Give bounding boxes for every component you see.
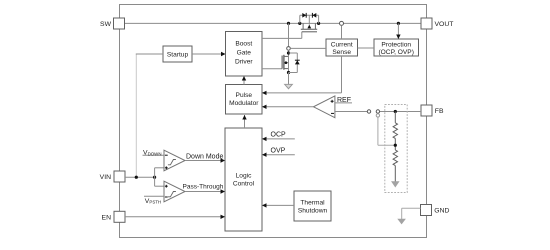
svg-text:PSTH: PSTH [149,200,161,205]
diode D2 [312,13,316,18]
wire VOUT rail to Protection [396,22,400,39]
svg-text:OVP: OVP [271,148,286,155]
svg-text:Sense: Sense [332,49,351,56]
resistor R2 [393,150,397,166]
label Down Mode [186,154,223,161]
label OCP [262,132,295,141]
wire EN to Logic Control [125,215,225,219]
comparator U3 Pass-Through [164,181,185,202]
pin VIN [100,171,125,182]
svg-text:Current: Current [331,41,353,48]
wire REF input [335,97,352,104]
wire Current Sense to Pulse Modulator [262,56,342,95]
wire Logic Control to Pulse Modulator [242,115,246,128]
svg-text:Gate: Gate [237,49,252,56]
wire FB to error amp [335,110,421,113]
wire Down Mode output [185,158,225,162]
svg-text:Boost: Boost [235,40,252,47]
pin VOUT [421,18,453,29]
transistor Q1 PMOS rectifier [298,22,320,32]
wire Startup to Boost Gate Driver [192,52,226,56]
op-amp U1 error amplifier [314,96,335,118]
svg-text:Modulator: Modulator [229,100,259,107]
comparator U2 Down Mode [164,150,185,171]
wire Q2 drain to SW rail [287,22,290,47]
block Protection (OCP, OVP) [374,39,419,56]
wire GND pin to ground [402,208,421,219]
block Thermal Shutdown [294,191,331,221]
block Boost Gate Driver [226,32,263,77]
block Current Sense [326,39,358,56]
svg-text:(OCP, OVP): (OCP, OVP) [378,49,413,56]
wire Thermal Shutdown to Logic Control [262,203,294,207]
svg-text:Thermal: Thermal [300,200,325,207]
label VPSTH with reference stub [144,196,164,205]
svg-text:Pulse: Pulse [236,92,253,99]
node divider tap [394,138,397,150]
svg-text:Control: Control [233,181,255,188]
ground Q2 source [285,84,293,88]
svg-text:VIN: VIN [100,174,111,181]
wire divider bottom [394,166,396,182]
label VDOWN with reference stub [143,150,165,157]
svg-text:Driver: Driver [235,58,253,65]
wire Boost Gate Driver to Q2 gate [262,68,282,70]
wire error amp output to Pulse Modulator [262,105,314,109]
external divider dashed box [385,105,407,193]
wire Pass-Through output [185,189,225,193]
node rail current sense [340,21,344,25]
svg-text:FB: FB [435,108,444,115]
resistor R1 [393,123,397,139]
wire Q2 source to ground [288,73,290,85]
svg-text:Logic: Logic [236,173,252,180]
pin GND [421,205,450,216]
IC boundary [120,5,427,238]
ground divider [392,182,399,187]
diode D1 [302,13,306,18]
svg-text:Protection: Protection [381,41,411,48]
wire rail sense to Current Sense [341,25,343,39]
wire Current Sense to Protection [358,47,375,49]
svg-text:REF: REF [337,97,351,104]
label Pass-Through [183,184,224,191]
svg-text:VOUT: VOUT [435,21,454,28]
node SW current sense tap [287,47,291,51]
pin FB [421,105,444,116]
wire top rail SW to VOUT [125,22,422,24]
wire Pulse Modulator to Boost Gate Driver [242,76,246,85]
wire Q1 body diode rail [300,15,319,24]
ground GND pin [398,219,405,223]
pin SW [100,18,124,29]
block Pulse Modulator [226,85,263,115]
svg-text:OCP: OCP [271,132,287,139]
pin EN [102,211,125,222]
wire VIN to comparator inputs [155,168,164,186]
block Logic Control [225,128,262,231]
svg-text:EN: EN [102,215,112,222]
wire VIN node [125,176,156,179]
transistor Q2 NMOS boost switch [282,50,290,74]
wire VIN to Startup [136,54,163,177]
diode D3 Q2 body diode [289,53,300,73]
label OVP [262,148,295,157]
wire Boost Gate Driver to Q1 gate [262,32,302,39]
wire sense tap to Current Sense [290,47,326,49]
svg-text:Down Mode: Down Mode [186,154,223,161]
svg-text:DOWN: DOWN [148,151,162,156]
svg-text:Shutdown: Shutdown [298,208,328,215]
svg-text:SW: SW [100,21,112,28]
svg-text:GND: GND [434,208,449,215]
svg-text:Pass-Through: Pass-Through [183,184,224,191]
wire feedback tap (grey) [378,117,395,145]
wire divider top [394,112,396,123]
block Startup [163,46,192,62]
node FB option circles [367,110,379,117]
svg-text:Startup: Startup [167,51,189,58]
